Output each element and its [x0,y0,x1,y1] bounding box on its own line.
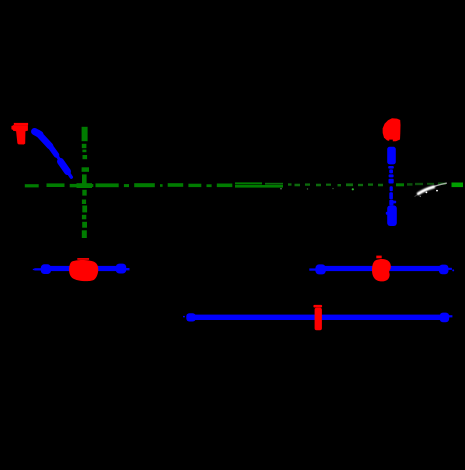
ruler 1 left end blob [41,264,51,274]
image blob (red, right side) [383,118,401,141]
optical axis (green dashed horizontal) [25,182,463,187]
ruler 3 left speck [183,316,185,317]
ruler 1 red marker blob [69,258,98,281]
ruler 3 red tick marker [313,305,322,330]
ruler 2 left end blob [315,264,325,274]
ruler 2 red marker blob [372,256,391,282]
ruler 2 right end blob [439,265,454,275]
ruler 3 line [194,315,442,320]
ruler 3 right end blob [440,313,453,323]
white specks [280,188,438,197]
object arrow (red, top-left) [11,123,28,145]
ruler 3 left end blob [186,313,195,321]
white highlight swoosh [415,183,447,196]
ruler 1 line [49,266,117,271]
focal lens vertical dashed line (blue, right) [386,147,397,226]
ruler 2 left arrow tail [309,268,317,270]
ruler 2 line [324,266,440,271]
ruler 1 right end blob [116,264,130,274]
incident ray (blue diagonal stroke) [35,132,72,178]
ruler 1 left arrow tail [33,268,43,270]
left lens vertical dashed line (green) [77,127,93,238]
